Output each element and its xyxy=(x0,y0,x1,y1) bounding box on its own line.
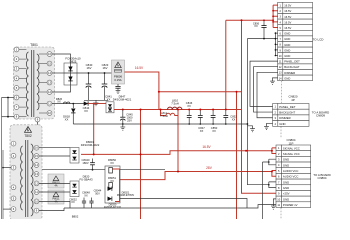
svg-text:16.5V: 16.5V xyxy=(284,26,291,30)
svg-text:GND: GND xyxy=(283,197,289,201)
wire T801 pin11 rail xyxy=(52,103,106,105)
wire red vertical V3 xyxy=(236,92,238,219)
svg-text:XX: XX xyxy=(84,193,88,197)
wire red fuse output 16.5V xyxy=(125,72,159,110)
svg-text:FM208-9/T83V: FM208-9/T83V xyxy=(117,193,135,197)
capacitor C8048 xyxy=(82,191,90,208)
wire left vertical joining xyxy=(7,98,9,117)
svg-text:4P: 4P xyxy=(291,98,295,102)
T802 right pins xyxy=(34,145,39,213)
svg-text:0.15A: 0.15A xyxy=(114,78,121,82)
T801 left pins xyxy=(14,47,19,119)
svg-text:PANEL_DET: PANEL_DET xyxy=(284,60,300,64)
ground symbol mid xyxy=(250,129,255,132)
svg-text:SIGNAL VCC: SIGNAL VCC xyxy=(283,152,300,156)
black vertical x246 xyxy=(247,39,268,185)
resistor R8051 xyxy=(109,183,113,189)
wire T801 pin12 to D825 xyxy=(52,85,71,92)
SECTION: connectors xyxy=(250,2,331,218)
wire D825 to fuse P8006 xyxy=(77,72,112,74)
svg-text:GND: GND xyxy=(283,158,289,162)
svg-text:GND: GND xyxy=(284,48,290,52)
black horizontal y38.6 top xyxy=(247,38,275,40)
resistor R8050 xyxy=(109,168,113,174)
capacitor C846 xyxy=(186,101,193,125)
wire red vertical V2 xyxy=(242,20,277,193)
svg-text:D4SC6M-4022: D4SC6M-4022 xyxy=(81,143,100,147)
svg-text:CN804: CN804 xyxy=(318,176,327,180)
svg-text:GND: GND xyxy=(284,54,290,58)
inductor L810 xyxy=(168,107,182,109)
SECTION: transformers xyxy=(2,43,55,220)
svg-text:XX: XX xyxy=(65,118,69,122)
svg-text:180V: 180V xyxy=(82,161,88,165)
wire T802 pin15 to D8019 xyxy=(39,155,70,157)
svg-text:POWER xV: POWER xV xyxy=(283,203,298,207)
wire left T802 pin6 xyxy=(3,208,11,210)
capacitor C841 under fuse xyxy=(105,84,120,101)
svg-text:T802: T802 xyxy=(24,134,31,138)
svg-text:XX: XX xyxy=(84,109,88,113)
transformer T802 core xyxy=(26,140,28,217)
wires CN821 to CN820 xyxy=(250,61,278,106)
wire T802 pin9 to rail xyxy=(39,208,64,211)
pin leads T801 xyxy=(19,50,47,117)
svg-text:D4SC6M-4021: D4SC6M-4021 xyxy=(113,98,132,102)
svg-text:B802: B802 xyxy=(72,214,79,218)
svg-text:7.5uH: 7.5uH xyxy=(171,102,178,106)
node red junction xyxy=(93,103,95,105)
svg-text:XX: XX xyxy=(107,97,111,101)
SECTION: red power rails xyxy=(81,5,278,219)
svg-text:DIMMER: DIMMER xyxy=(284,71,295,75)
svg-text:T801: T801 xyxy=(30,43,38,47)
transformer T801 primary winding xyxy=(26,52,28,116)
svg-text:XX: XX xyxy=(232,117,236,121)
svg-text:+25V: +25V xyxy=(283,192,290,196)
gnd branch mid xyxy=(247,126,252,129)
svg-text:XX: XX xyxy=(212,129,216,133)
wire red rail 16.5V main xyxy=(114,109,242,111)
red stub CN804 pin2 xyxy=(272,148,276,154)
diode D844 on rail xyxy=(83,101,90,113)
capacitor C856 xyxy=(253,19,267,38)
svg-text:16.5V: 16.5V xyxy=(284,9,291,13)
wire T802 pin12 to D820 xyxy=(39,182,70,184)
capacitor C8044 xyxy=(89,189,101,208)
red stubs top connector pins1-5 xyxy=(273,5,278,27)
svg-text:DIMMER: DIMMER xyxy=(279,116,290,120)
fuse P8010 xyxy=(48,190,64,204)
black rail y198.5 xyxy=(120,199,247,209)
svg-text:16V: 16V xyxy=(87,66,92,70)
fuse P8006 xyxy=(112,60,125,84)
svg-text:GND: GND xyxy=(284,43,290,47)
svg-text:FM208-9/T132: FM208-9/T132 xyxy=(104,205,122,209)
wire left edge vertical down xyxy=(1,98,3,220)
diode D8030 xyxy=(108,197,112,201)
capacitor C823 xyxy=(102,63,109,100)
wire left T801 pin8 xyxy=(2,116,15,118)
inductor L826 on rail xyxy=(64,102,70,104)
fuse P8009 xyxy=(48,174,64,188)
ground symbol C845 xyxy=(120,127,125,130)
svg-text:28V: 28V xyxy=(206,166,213,170)
wire red vertical V4 xyxy=(140,110,142,220)
svg-text:16.5V: 16.5V xyxy=(284,20,291,24)
capacitor C845 xyxy=(120,109,133,128)
gnd rail mid xyxy=(73,123,247,125)
SECTION: top rectifier area xyxy=(52,54,132,124)
svg-text:GND: GND xyxy=(284,32,290,36)
transformer T801 body xyxy=(14,43,55,119)
SECTION: mid caps xyxy=(73,101,247,133)
inductor L811 loop xyxy=(161,110,179,116)
transformer T802 primary winding xyxy=(21,146,23,210)
wire red branch y90 xyxy=(159,91,242,93)
transformer T801 secondary winding xyxy=(37,54,39,110)
gnd stub CN820 row4 xyxy=(267,123,273,126)
svg-text:16.5V: 16.5V xyxy=(284,4,291,8)
warning triangle T802 xyxy=(25,127,32,133)
svg-text:XX: XX xyxy=(187,104,191,108)
gnd bus top connector xyxy=(275,33,277,55)
svg-text:GND: GND xyxy=(284,76,290,80)
T801 right pins xyxy=(35,52,52,122)
diode D8021 xyxy=(108,187,112,191)
capacitor C840 xyxy=(86,63,93,100)
svg-text:25V: 25V xyxy=(127,119,132,123)
gnd stub row14 xyxy=(273,78,278,81)
svg-text:D825: D825 xyxy=(70,59,77,63)
svg-text:CN809: CN809 xyxy=(316,114,325,118)
wire red rail 28V xyxy=(120,172,272,180)
transformer T802 secondary winding xyxy=(31,144,33,216)
ground symbol CN804 xyxy=(271,206,276,209)
dual diode D820 xyxy=(70,174,93,196)
resistor chain box xyxy=(105,166,120,203)
wire T801 pin9 down xyxy=(37,122,39,126)
red segment chain xyxy=(112,169,119,202)
wire rail y169.7 xyxy=(42,169,165,171)
svg-text:16.5V: 16.5V xyxy=(284,15,291,19)
svg-text:AUDIO VCC: AUDIO VCC xyxy=(283,169,299,173)
wire T802 pin11 to D820 xyxy=(39,191,70,193)
dashed link below CN820 xyxy=(280,127,282,219)
T802 left pins xyxy=(11,141,16,211)
svg-text:BACKLIGHT: BACKLIGHT xyxy=(279,111,295,115)
wire T801 pin16 to D825 xyxy=(52,54,71,63)
wire red top horizontal to connector xyxy=(226,19,273,21)
svg-text:XX: XX xyxy=(200,129,204,133)
svg-text:XX: XX xyxy=(254,24,258,28)
wire red rail 16.5V lower xyxy=(81,148,276,155)
wire T802 pin16 to D8019 xyxy=(39,147,70,149)
svg-text:FU-5BA43: FU-5BA43 xyxy=(79,177,93,181)
wire T802 pin10 down xyxy=(39,201,70,208)
wire CN804 gnd pin10 xyxy=(273,199,276,206)
capacitor C8040 xyxy=(82,158,95,171)
svg-text:SIGNAL VCC: SIGNAL VCC xyxy=(283,146,300,150)
red stub CN804 pins 5-6 xyxy=(272,171,276,177)
wire left vertical T802 xyxy=(2,150,4,219)
svg-text:GND: GND xyxy=(284,37,290,41)
capacitor C850 xyxy=(211,109,218,133)
node junction D818 xyxy=(72,103,74,105)
ground rail under C840/C823 xyxy=(84,99,108,101)
svg-text:16V: 16V xyxy=(103,66,108,70)
svg-text:GND: GND xyxy=(283,180,289,184)
SECTION: bottom circuits xyxy=(39,38,276,219)
wire red vertical V5 from D844 node xyxy=(93,104,95,155)
svg-text:XX: XX xyxy=(110,161,114,165)
diode D818 xyxy=(63,104,75,124)
ground symbol xyxy=(94,100,99,106)
wire red vertical V1 to top connector xyxy=(225,20,227,109)
svg-text:BACKLIGHT: BACKLIGHT xyxy=(284,65,300,69)
transformer T801 core xyxy=(32,50,34,117)
svg-text:AUDIO VCC: AUDIO VCC xyxy=(283,175,299,179)
transformer T802 body xyxy=(10,125,42,220)
pin leads T802 xyxy=(16,144,34,211)
svg-text:50V: 50V xyxy=(95,191,100,195)
svg-text:XX: XX xyxy=(57,100,61,104)
dual diode D8019 xyxy=(70,140,100,163)
wire CN804 gnd pins7-8 xyxy=(269,182,276,188)
dashed link below CN821 xyxy=(281,81,283,103)
svg-text:PANEL_DET: PANEL_DET xyxy=(279,105,295,109)
svg-text:16.5V: 16.5V xyxy=(202,145,211,149)
capacitor C852 xyxy=(223,109,237,125)
dual diode D847 xyxy=(106,95,132,113)
wire T801 pin14 to D825 xyxy=(52,72,64,74)
svg-text:16.5V: 16.5V xyxy=(135,66,144,70)
connector CN821 TO LCD xyxy=(278,2,313,80)
wire red to D847 xyxy=(88,103,106,105)
wire CN804 gnd pins3-4 xyxy=(263,159,277,165)
svg-text:GND: GND xyxy=(283,163,289,167)
bottom gnd rail xyxy=(64,205,276,208)
svg-text:7.5uH: 7.5uH xyxy=(160,114,167,118)
wire left T802 pin3 xyxy=(3,167,11,169)
capacitor C847 xyxy=(198,109,205,133)
black vertical x262.5 GND xyxy=(262,162,264,219)
svg-text:TO LCD: TO LCD xyxy=(313,38,325,42)
wire red vertical x178 to 28V rail xyxy=(177,110,179,172)
dual diode D825 xyxy=(64,57,81,85)
svg-text:4A: 4A xyxy=(54,185,57,188)
svg-text:GND: GND xyxy=(279,122,285,126)
wire left T801 pin6 xyxy=(2,97,15,99)
svg-text:XX: XX xyxy=(71,200,75,204)
svg-text:GND: GND xyxy=(283,186,289,190)
